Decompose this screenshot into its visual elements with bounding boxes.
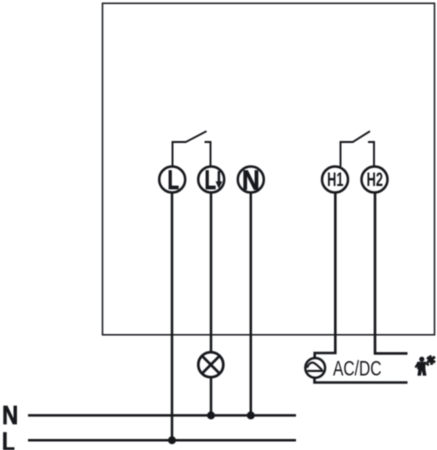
wire lamp to N bus: [210, 377, 213, 415]
switch S1 moving contact arm from L: [173, 142, 187, 166]
switch S2 fixed contact to H2: [368, 142, 374, 166]
switch S1 fixed contact to L-out: [205, 142, 211, 166]
switch S2 blade: [353, 131, 371, 142]
terminal L-out (switched live): [198, 165, 224, 195]
svg-text:H1: H1: [327, 169, 343, 191]
junction dot L wire on L bus: [168, 436, 176, 444]
terminal H2: [362, 167, 388, 193]
junction dot lamp wire on N bus: [207, 411, 215, 419]
svg-text:L: L: [2, 427, 15, 450]
svg-text:L: L: [205, 165, 216, 195]
wire AC/DC converter output (bottom lead): [313, 378, 407, 383]
device outline: [103, 3, 435, 335]
svg-text:N: N: [242, 164, 260, 195]
N bus line: [28, 414, 296, 417]
switch S1 blade: [186, 131, 207, 142]
L bus line: [28, 439, 296, 442]
svg-text:AC/DC: AC/DC: [333, 357, 382, 380]
terminal N: [238, 164, 264, 195]
svg-text:H2: H2: [367, 169, 383, 191]
switch S2 moving contact arm from H1: [341, 142, 354, 167]
wire L-out terminal to lamp: [210, 192, 213, 352]
junction dot N wire on N bus: [247, 411, 255, 419]
wire L terminal to L bus: [171, 192, 174, 440]
wire N terminal to N bus: [250, 192, 253, 415]
motion sensor person icon: [415, 357, 429, 376]
AC/DC converter symbol: [305, 358, 325, 378]
terminal H1: [322, 167, 348, 193]
terminal L: [159, 165, 185, 195]
wire H1 terminal to AC/DC converter: [315, 192, 336, 357]
lamp E1: [198, 352, 223, 377]
flash star on sensor icon: [427, 355, 435, 364]
svg-text:L: L: [168, 165, 179, 195]
wire H2 terminal to load lead: [375, 192, 408, 353]
